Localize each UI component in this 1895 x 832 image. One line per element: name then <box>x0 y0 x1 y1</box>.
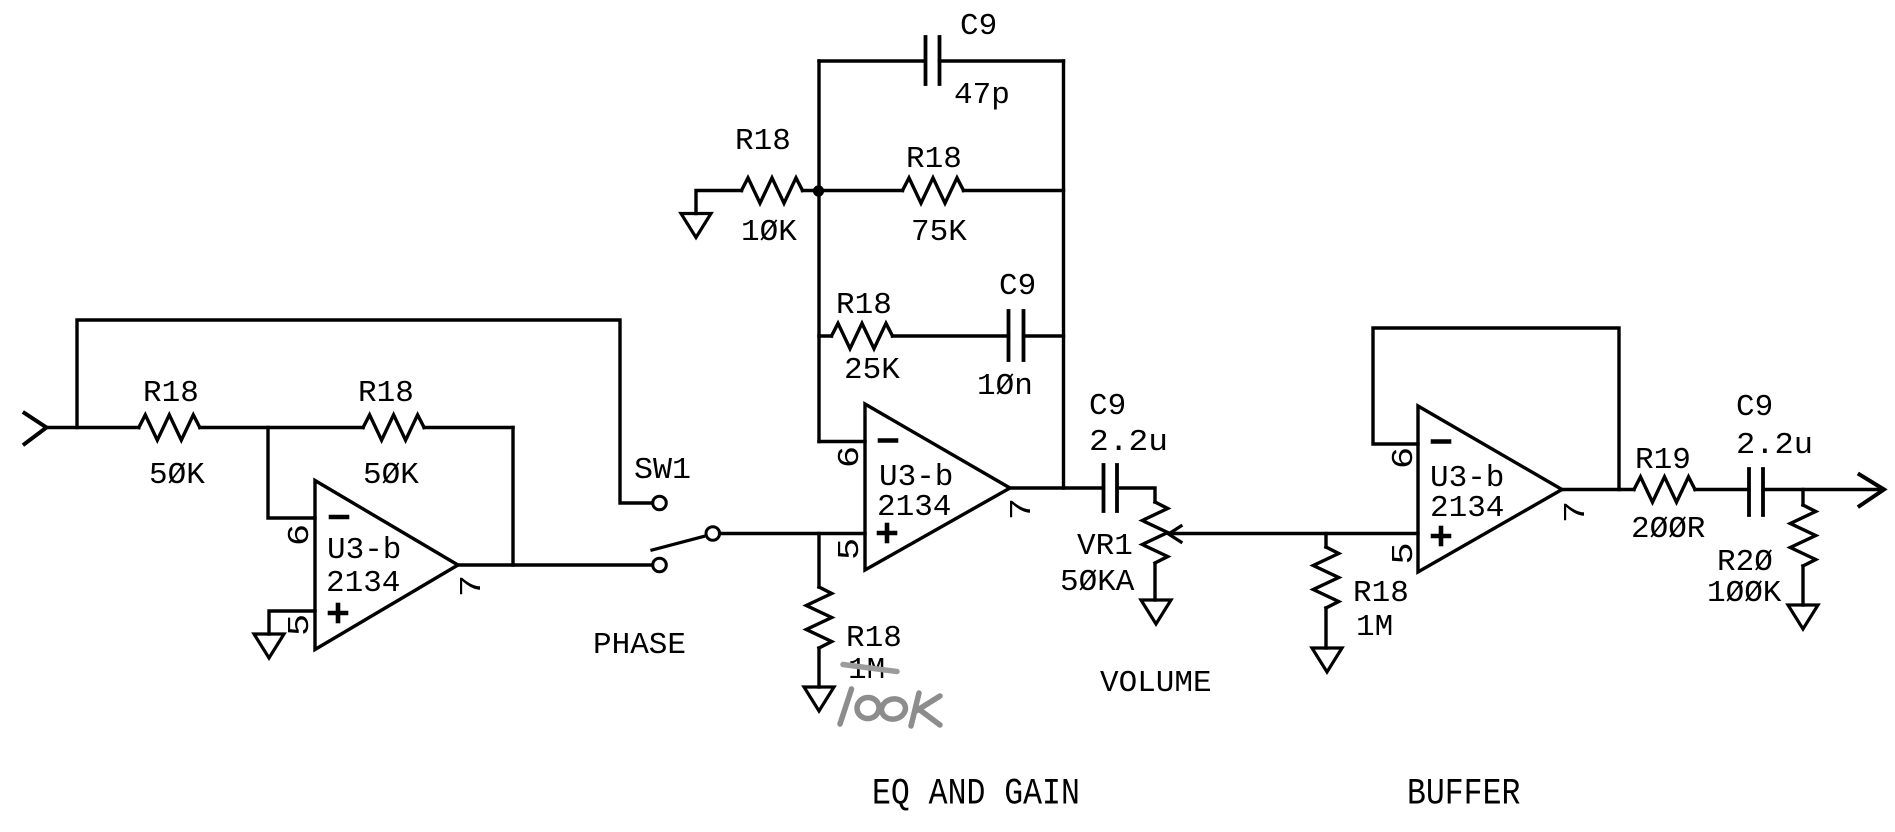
svg-text:EQ AND GAIN: EQ AND GAIN <box>872 773 1080 815</box>
resistor R18 50K (first) <box>139 415 200 440</box>
plus sign at pin 5 (middle op-amp) <box>879 531 895 536</box>
wire: buffer feedback loop pin 6 to output <box>1373 328 1619 490</box>
wire: node to inverting input pin 6 of U3-b (left) <box>268 428 315 519</box>
svg-text:R18: R18 <box>735 124 791 159</box>
svg-text:2134: 2134 <box>1430 491 1504 526</box>
op-amp U3-b (middle) triangle <box>865 404 1010 570</box>
svg-text:R2Ø: R2Ø <box>1717 545 1773 580</box>
svg-text:7: 7 <box>1559 501 1594 523</box>
potentiometer VR1 50KA resistor body <box>1142 502 1167 563</box>
svg-text:5ØK: 5ØK <box>149 458 205 493</box>
svg-text:U3-b: U3-b <box>327 533 401 568</box>
wire: feedback right vertical (middle stage) <box>1062 61 1065 488</box>
wire: R18 25K to C9 10n <box>893 334 1009 337</box>
minus sign at pin 6 (middle op-amp) <box>880 438 896 443</box>
svg-text:2134: 2134 <box>877 490 951 525</box>
resistor R18 75K <box>903 178 964 203</box>
svg-text:2ØØR: 2ØØR <box>1631 512 1705 547</box>
svg-text:75K: 75K <box>911 215 967 250</box>
wire: input to R18 50K (first) <box>47 426 139 429</box>
output arrow head <box>1860 475 1885 507</box>
ground (R18 1M middle) <box>804 687 834 711</box>
wire: R18 50K (second) to feedback corner <box>424 426 513 429</box>
pencil strikethrough over 1M <box>843 665 897 672</box>
wire: C9 2.2u (buffer) to output arrow <box>1763 488 1882 491</box>
svg-text:5ØK: 5ØK <box>363 458 419 493</box>
VR1 wiper arrow <box>1169 526 1182 542</box>
wire: VR1 bottom to ground <box>1153 565 1156 600</box>
ground (R20) <box>1788 605 1818 629</box>
resistor R18 10K <box>742 178 803 203</box>
svg-text:C9: C9 <box>1736 390 1773 425</box>
wire: pin 5 of left op-amp to ground <box>269 611 315 634</box>
minus sign at pin 6 (buffer op-amp) <box>1433 439 1449 444</box>
ground (R18 1M right) <box>1312 648 1342 672</box>
svg-text:R18: R18 <box>836 288 892 323</box>
svg-text:R19: R19 <box>1635 443 1691 478</box>
input connector chevron <box>25 413 47 444</box>
svg-text:25K: 25K <box>844 353 900 388</box>
wire: output pin 7 of middle op-amp to C9 2.2u <box>1010 486 1104 489</box>
plus sign at pin 5 (buffer op-amp) <box>1433 534 1449 539</box>
svg-text:2134: 2134 <box>326 566 400 601</box>
op-amp U3-b (left) triangle <box>315 481 458 650</box>
svg-text:BUFFER: BUFFER <box>1407 773 1520 815</box>
pencil handwritten 100K <box>840 689 940 726</box>
wire: junction to R18 75K <box>819 189 903 192</box>
capacitor C9 2.2u (buffer) plates <box>1747 469 1751 515</box>
svg-text:5: 5 <box>1387 542 1422 564</box>
resistor R18 25K <box>832 323 893 348</box>
svg-text:2.2u: 2.2u <box>1736 428 1813 463</box>
svg-text:7: 7 <box>455 575 490 597</box>
wire: top feedback horizontal left segment <box>819 59 925 62</box>
svg-text:6: 6 <box>1387 447 1422 469</box>
svg-text:VOLUME: VOLUME <box>1100 666 1212 701</box>
switch SW1 top contact <box>653 496 667 510</box>
wire: C9 2.2u to VR1 top <box>1117 488 1155 502</box>
wire: R18 50K (first) to R18 50K (second), node at x=268 <box>200 426 363 429</box>
capacitor C9 10n plates <box>1007 311 1011 360</box>
wire: output pin 7 of left op-amp to SW1 bottom contact <box>458 563 653 566</box>
svg-text:7: 7 <box>1005 498 1040 520</box>
wire: feedback vertical down to output of U3-b (left) <box>511 428 514 566</box>
svg-text:VR1: VR1 <box>1077 529 1133 564</box>
svg-text:C9: C9 <box>999 269 1036 304</box>
resistor R18 1M (right, below wiper wire) <box>1324 534 1327 548</box>
op-amp U3-b (buffer) triangle <box>1418 406 1562 572</box>
wire: top feedback horizontal right segment <box>940 59 1064 62</box>
svg-text:C9: C9 <box>960 9 997 44</box>
wire: C9 10n to right vertical <box>1024 334 1064 337</box>
plus sign at pin 5 (left op-amp) <box>330 611 346 616</box>
wire: pin 6 of U3-b (middle) to feedback vertical <box>819 440 865 443</box>
svg-text:5: 5 <box>283 614 318 636</box>
ground (left op-amp pin 5) <box>254 634 284 658</box>
wire: R18 75K to right vertical <box>964 189 1064 192</box>
wire: top feedback from input node to SW1 top contact <box>77 320 653 503</box>
wire: R19 to C9 2.2u (buffer) <box>1695 488 1749 491</box>
svg-text:SW1: SW1 <box>634 453 691 488</box>
svg-text:5: 5 <box>833 538 868 560</box>
ground (R18 10K) <box>681 214 711 238</box>
wire: feedback left vertical (middle stage) <box>817 61 820 442</box>
ground (VR1) <box>1141 600 1171 624</box>
wire: SW1 pole to pin 5 of U3-b (middle) <box>720 532 865 535</box>
svg-text:2.2u: 2.2u <box>1089 425 1168 460</box>
switch SW1 pole contact <box>706 527 720 541</box>
svg-text:1ØK: 1ØK <box>741 215 797 250</box>
switch SW1 bottom contact <box>653 558 667 572</box>
svg-text:6: 6 <box>283 524 318 546</box>
node junction dot at R18 10K / R18 75K <box>813 185 824 196</box>
svg-text:R18: R18 <box>846 621 902 656</box>
resistor R18 50K (second) <box>363 415 424 440</box>
wire: VR1 wiper to pin 5 of buffer op-amp <box>1170 532 1418 535</box>
svg-text:47p: 47p <box>954 78 1010 113</box>
resistor R18 1M (middle, below pin 5 wire) <box>817 534 820 588</box>
wire: left vertical to R18 25K <box>819 334 832 337</box>
svg-text:1Øn: 1Øn <box>977 369 1033 404</box>
svg-text:R18: R18 <box>1353 576 1409 611</box>
wire: buffer output to R19 <box>1562 488 1634 491</box>
svg-text:C9: C9 <box>1089 389 1126 424</box>
capacitor C9 47p plates <box>924 37 928 84</box>
resistor R20 100K <box>1801 490 1804 506</box>
resistor R19 200R <box>1634 477 1695 502</box>
switch SW1 lever <box>652 537 704 551</box>
svg-text:R18: R18 <box>143 376 199 411</box>
minus sign at pin 6 (left op-amp) <box>331 515 347 520</box>
wire: R18 10K right to junction <box>803 189 820 192</box>
svg-text:6: 6 <box>833 446 868 468</box>
svg-text:1M: 1M <box>1356 610 1393 645</box>
svg-text:1ØØK: 1ØØK <box>1707 576 1782 611</box>
svg-text:PHASE: PHASE <box>593 628 686 663</box>
wire: R18 10K to ground elbow <box>696 191 742 214</box>
svg-text:R18: R18 <box>358 376 414 411</box>
svg-text:R18: R18 <box>906 142 962 177</box>
capacitor C9 2.2u (middle) plates <box>1102 465 1106 511</box>
svg-text:5ØKA: 5ØKA <box>1060 565 1135 600</box>
